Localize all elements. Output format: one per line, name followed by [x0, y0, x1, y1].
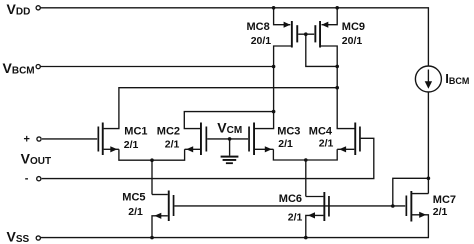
wire MC5-MC6-MC7 gate line — [174, 205, 405, 207]
wire VCM drop — [229, 139, 231, 156]
wire VDD rail — [40, 8, 428, 66]
wire MC6 drain lead — [306, 196, 324, 198]
transistor MC8 (PMOS) — [291, 21, 293, 48]
current source IBCM circle — [415, 66, 441, 92]
ground symbol under VCM — [221, 156, 239, 158]
wire MC7 drain lead — [412, 193, 429, 195]
svg-text:20/1: 20/1 — [251, 35, 272, 47]
wire MC8-MC9 gate tie to MC9 drain — [298, 33, 314, 35]
transistor MC6 — [323, 192, 325, 221]
transistor MC9 (PMOS) — [319, 21, 321, 48]
transistor MC5 — [168, 191, 170, 222]
wire MC4 source lead — [337, 148, 354, 150]
svg-text:MC3: MC3 — [277, 125, 300, 137]
transistor MC1 — [102, 123, 104, 156]
transistor MC3 — [253, 123, 255, 156]
wire VBCM line — [40, 66, 273, 68]
wire MC2 source lead — [185, 148, 201, 150]
wire IBCM to MC7 drain — [427, 92, 429, 194]
wire MC2-MC3 gate line — [207, 138, 248, 140]
transistor MC7 — [410, 191, 412, 222]
wire MC8 drain column — [254, 46, 292, 129]
wire MC8 source to VDD — [274, 8, 291, 25]
svg-text:MC7: MC7 — [433, 194, 456, 206]
transistor MC2 — [200, 123, 202, 156]
wire MC7 gate jog — [393, 178, 429, 206]
node VBCM terminal — [36, 65, 40, 69]
svg-text:+: + — [24, 133, 30, 145]
transistor MC4 — [354, 123, 356, 156]
wire MC2 gate stub — [206, 138, 208, 140]
svg-text:2/1: 2/1 — [128, 206, 143, 218]
wire MC3 source lead — [255, 148, 274, 150]
wire MC6 drain drop — [305, 160, 307, 197]
svg-text:MC5: MC5 — [122, 192, 145, 204]
wire MC1-MC2 source rail — [119, 149, 185, 160]
wire MC3-MC4 source rail — [273, 149, 337, 160]
node input - terminal — [37, 177, 41, 181]
node input + terminal — [37, 137, 41, 141]
wire MC5 drain drop — [151, 160, 153, 194]
svg-text:2/1: 2/1 — [288, 212, 303, 224]
svg-text:-: - — [25, 173, 29, 185]
svg-text:MC6: MC6 — [279, 193, 302, 205]
wire node B: MC2 drain to MC8 drain — [184, 112, 273, 129]
wire MC5 drain lead — [152, 194, 168, 196]
svg-text:MC9: MC9 — [342, 21, 365, 33]
svg-text:2/1: 2/1 — [319, 137, 334, 149]
svg-text:MC2: MC2 — [157, 125, 180, 137]
node VDD terminal — [36, 6, 40, 10]
wire MC7 source lead — [412, 215, 429, 238]
wire node A: MC1 drain to MC9 drain — [104, 88, 338, 129]
svg-text:2/1: 2/1 — [165, 138, 180, 150]
junction dots — [272, 6, 276, 10]
wire MC9 source to VDD — [322, 8, 338, 25]
svg-text:20/1: 20/1 — [342, 35, 363, 47]
wire input - line to MC4 gate — [42, 138, 374, 178]
wire MC9 drain column — [320, 46, 355, 129]
wire MC5 source lead — [152, 216, 168, 238]
wire MC6 source lead — [306, 215, 324, 237]
wire MC1 drain lead (part of node A) — [104, 148, 119, 150]
svg-text:2/1: 2/1 — [124, 139, 139, 151]
svg-text:2/1: 2/1 — [278, 138, 293, 150]
svg-text:MC1: MC1 — [124, 125, 147, 137]
svg-text:MC4: MC4 — [309, 125, 333, 137]
svg-text:2/1: 2/1 — [433, 206, 448, 218]
wire input + to MC1 gate — [42, 138, 97, 140]
svg-text:MC8: MC8 — [247, 21, 270, 33]
wire VSS rail — [41, 237, 430, 239]
node VSS terminal — [36, 236, 40, 240]
current source IBCM arrowhead — [425, 81, 432, 89]
